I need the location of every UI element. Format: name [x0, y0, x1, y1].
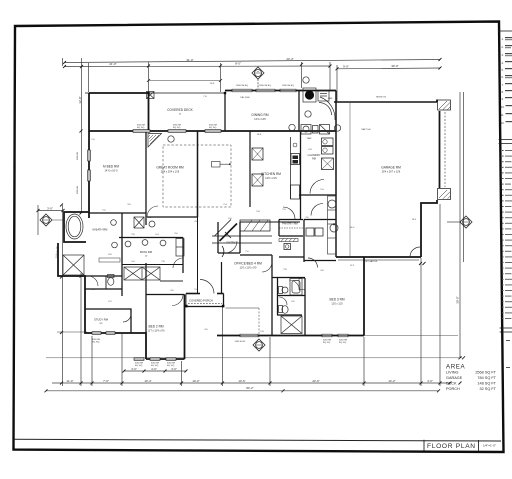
foyer east wall [221, 262, 223, 294]
interior walls [85, 91, 336, 336]
closet X box 1 [63, 255, 84, 275]
door arc powder [279, 297, 287, 305]
svg-text:STUDY RM: STUDY RM [94, 318, 109, 322]
notes column [498, 31, 512, 368]
wall: garage south [336, 256, 421, 258]
diamond tag bottom [226, 308, 266, 351]
svg-text:COVERED DECK: COVERED DECK [167, 108, 193, 112]
svg-text:84'-2": 84'-2" [246, 386, 253, 390]
leader from bed3 corner [364, 335, 458, 337]
svg-text:1/4"=1'-0": 1/4"=1'-0" [483, 444, 496, 448]
svg-text:PANTRY RM: PANTRY RM [282, 222, 298, 226]
porch strip [186, 293, 200, 295]
dimension lines [37, 57, 466, 392]
K box tag [147, 92, 155, 99]
svg-text:23'-0": 23'-0" [312, 379, 319, 383]
svg-text:PORCH: PORCH [446, 387, 460, 391]
kitchen east counter column [290, 137, 292, 199]
svg-text:11'-0": 11'-0" [66, 379, 73, 383]
wall: main north [89, 130, 336, 132]
svg-text:7'-6": 7'-6" [103, 379, 109, 383]
tray ceiling dashed [163, 145, 231, 207]
notes list rows (lower box, dense) [502, 150, 512, 319]
dryer [320, 125, 330, 135]
svg-text:EQ. EQ.: EQ. EQ. [323, 342, 331, 344]
svg-text:RAFT 2x8: RAFT 2x8 [362, 128, 372, 131]
svg-text:EQ. EQ.: EQ. EQ. [167, 365, 175, 367]
door arc study [123, 314, 131, 322]
corner fireplace [148, 134, 162, 148]
svg-text:12'0 x 11'0: 12'0 x 11'0 [331, 303, 343, 306]
svg-text:30'-0": 30'-0" [456, 296, 460, 303]
extension x337 [336, 65, 338, 101]
svg-text:10'-0": 10'-0" [192, 379, 199, 383]
toilet 2 [112, 242, 118, 248]
toilet 1 [111, 220, 117, 226]
kitchen south wall [240, 221, 300, 223]
svg-text:2.: 2. [502, 45, 504, 49]
bath toilet [125, 241, 131, 247]
bottom extensions [91, 336, 93, 386]
circle tags small [149, 77, 341, 227]
diamond tag right [460, 216, 472, 228]
kitchen west cabinets [252, 148, 263, 160]
diamond tag top [252, 67, 264, 79]
svg-text:M BED RM: M BED RM [103, 165, 119, 169]
mud door arc [311, 204, 323, 216]
closet X box 3 (hall band) [124, 267, 183, 281]
garage circle tags [328, 200, 338, 232]
bottom long leader y352 [46, 357, 462, 359]
svg-text:4'-0": 4'-0" [171, 367, 177, 371]
svg-text:EQ. EQ.: EQ. EQ. [92, 342, 100, 344]
fixtures and symbols [40, 67, 472, 351]
wall: mud south [304, 219, 336, 221]
svg-text:11'7 x 13'4 x 9'0: 11'7 x 13'4 x 9'0 [148, 330, 166, 333]
wall: south office+bed3 [217, 335, 364, 337]
left tub dim [37, 205, 39, 235]
front door arc [200, 280, 214, 294]
svg-text:FLOOR PLAN: FLOOR PLAN [427, 443, 476, 450]
title strip line [14, 439, 501, 441]
walls [58, 89, 451, 360]
top dim line right [337, 67, 440, 70]
svg-text:LAUNDRY: LAUNDRY [308, 153, 321, 157]
top extension x83 [81, 58, 83, 213]
wall: bath west [121, 213, 123, 296]
notes box borders [498, 31, 512, 332]
garage south apron line [338, 259, 419, 261]
svg-text:RIDGE LN: RIDGE LN [376, 97, 386, 99]
wall: m bath north [89, 212, 146, 214]
powder sink [284, 244, 291, 250]
wall: bed2 west upper [145, 263, 147, 333]
toilet with base hall bath [108, 275, 115, 286]
extension x330 [329, 62, 331, 90]
wall: laundry south [299, 194, 336, 196]
wall: m bed east [145, 131, 147, 225]
svg-text:GARAGE RM: GARAGE RM [381, 166, 401, 170]
svg-text:EQ. EQ.: EQ. EQ. [135, 365, 143, 367]
wall: kitchen east [300, 131, 302, 220]
entry angled walls [220, 224, 238, 242]
svg-text:EQ. EQ.: EQ. EQ. [339, 342, 347, 344]
garage interior extension [349, 103, 351, 256]
wall: garage east [436, 100, 438, 103]
wall: dining north [225, 90, 336, 92]
bed3 bath toilet [279, 287, 289, 294]
dim texts [47, 57, 459, 390]
wall: bed3 east [363, 257, 365, 336]
extension x66 [62, 58, 64, 66]
svg-text:3050 SH EQ: 3050 SH EQ [236, 85, 248, 87]
right tag leader [447, 221, 461, 223]
svg-text:3050 SH EQ: 3050 SH EQ [282, 85, 294, 87]
bed3 closet shelf [299, 279, 305, 290]
fridge [318, 91, 329, 101]
svg-text:12'4 x 13'6: 12'4 x 13'6 [254, 118, 266, 121]
extension x466 right [459, 92, 461, 358]
wall: office north [240, 254, 272, 256]
extension x258 (tag leader) [257, 79, 259, 90]
FP tag box [212, 162, 231, 168]
svg-text:4'-0": 4'-0" [131, 367, 137, 371]
wall: tub box [64, 212, 89, 242]
svg-text:8'-0": 8'-0" [235, 62, 241, 66]
svg-text:3.: 3. [502, 53, 504, 57]
svg-text:12.: 12. [501, 121, 505, 125]
garage door tick pair [419, 262, 426, 265]
porch posts [185, 305, 224, 308]
wall: office east [271, 255, 273, 336]
door arc mud [320, 97, 335, 120]
lower box sparse marks [506, 340, 510, 368]
wall: study box [85, 309, 131, 333]
bottom dim y371 short [124, 370, 186, 372]
svg-text:1.: 1. [502, 37, 504, 41]
door arc entry [225, 241, 237, 253]
island with hatch [240, 220, 270, 231]
svg-text:KITCHEN RM: KITCHEN RM [261, 172, 281, 176]
svg-text:10.: 10. [501, 105, 505, 109]
svg-text:EQ. EQ.: EQ. EQ. [173, 127, 181, 129]
mud bench boxes [306, 228, 314, 236]
svg-text:OFFICE/BED 4 RM: OFFICE/BED 4 RM [234, 262, 262, 266]
wall: bed2 east [184, 295, 186, 360]
svg-text:9'-0": 9'-0" [343, 64, 349, 68]
laundry washer dryer [322, 138, 334, 146]
svg-text:BATH RM: BATH RM [140, 250, 153, 254]
tick slashes [37, 58, 466, 392]
svg-text:EQ. EQ.: EQ. EQ. [151, 365, 159, 367]
tiny interior dims [91, 83, 417, 343]
svg-text:COVERED PORCH: COVERED PORCH [189, 299, 213, 303]
svg-text:3050 SH EQ: 3050 SH EQ [259, 85, 271, 87]
door arc bed3 [308, 258, 318, 268]
svg-text:4.: 4. [502, 61, 504, 65]
svg-text:20'4 x 20'4 x 13'6: 20'4 x 20'4 x 13'6 [161, 171, 180, 174]
foyer west wall [197, 217, 199, 294]
wall: pantry [279, 219, 303, 221]
stove [303, 88, 316, 102]
wall: bed2 south [146, 358, 185, 360]
svg-text:32 SQ FT: 32 SQ FT [480, 387, 497, 391]
svg-text:3'-0": 3'-0" [47, 207, 53, 211]
door arc great room south [147, 206, 158, 217]
deck top edge thin [85, 92, 225, 94]
svg-text:3050 SH: 3050 SH [77, 151, 79, 160]
svg-text:AREA: AREA [446, 364, 466, 371]
wall: garage north [334, 101, 437, 103]
garage cabinets [328, 196, 337, 254]
wall: hall south [304, 260, 336, 262]
laundry door arc [310, 180, 324, 194]
door arc bath [173, 258, 183, 268]
wall: bath box [119, 237, 183, 239]
bathtub [66, 214, 83, 239]
door arc bed3 bath [289, 280, 300, 291]
small cab [313, 126, 319, 134]
door arc m bath [88, 276, 98, 286]
svg-text:13'-6": 13'-6" [238, 379, 245, 383]
door arc kitchen hall [319, 103, 332, 116]
top dim line left [65, 65, 331, 68]
wall: bed2 north [146, 294, 185, 296]
wall: powder east [303, 220, 305, 263]
svg-text:12'-0": 12'-0" [78, 96, 82, 103]
svg-text:16'0 GAR DR: 16'0 GAR DR [365, 260, 378, 263]
svg-text:11.: 11. [501, 113, 505, 117]
door arc bed2 porch [172, 295, 183, 306]
svg-text:5040 SLGD: 5040 SLGD [235, 341, 246, 343]
wall: garage west [335, 91, 337, 258]
wall: great room south [147, 216, 198, 218]
bottom dim y389 [46, 390, 439, 392]
wall: kitchen top corner [298, 91, 300, 132]
wall: west jog [58, 243, 146, 359]
kitchen west wall [249, 131, 251, 207]
title block: floor plan box [424, 440, 479, 451]
svg-text:4'-0": 4'-0" [151, 367, 157, 371]
svg-text:7.: 7. [502, 83, 504, 87]
svg-text:14'-0 x 16'-0: 14'-0 x 16'-0 [104, 170, 118, 173]
svg-text:13'-4": 13'-4" [144, 379, 151, 383]
svg-text:14'-2": 14'-2" [388, 379, 395, 383]
bed3 bath tub [290, 279, 302, 296]
svg-text:LIVING: LIVING [446, 371, 458, 375]
svg-text:DINING RM: DINING RM [252, 113, 269, 117]
svg-text:21'-0": 21'-0" [109, 62, 116, 66]
wall: M BED north [89, 92, 149, 94]
svg-text:GREAT ROOM RM: GREAT ROOM RM [156, 166, 184, 170]
bottom dim y380 [52, 382, 450, 384]
svg-text:GARAGE: GARAGE [446, 376, 463, 380]
area table [446, 364, 497, 392]
wall: closet bottom [85, 275, 122, 277]
svg-text:EQ. EQ.: EQ. EQ. [137, 127, 145, 129]
wall: M BED west [88, 93, 90, 218]
pocket door hatch band [279, 239, 298, 242]
svg-text:BED 3 RM: BED 3 RM [329, 298, 344, 302]
diamond tag left [40, 214, 52, 226]
deck posts [147, 92, 226, 94]
notes list rows (upper box) [501, 37, 512, 125]
windows: main north wall [88, 89, 348, 360]
garage NE chimney [438, 100, 451, 200]
svg-text:BED 2 RM: BED 2 RM [148, 325, 163, 329]
window labels [77, 85, 386, 367]
svg-text:RM: RM [312, 158, 316, 161]
svg-text:EQ. EQ.: EQ. EQ. [209, 127, 217, 129]
washer [301, 125, 311, 135]
svg-text:148 SQ FT: 148 SQ FT [477, 382, 496, 386]
door arc garage [410, 247, 420, 257]
svg-text:4'-0": 4'-0" [427, 379, 433, 383]
svg-text:DBL 5040: DBL 5040 [240, 97, 250, 99]
svg-text:5.: 5. [502, 68, 504, 72]
svg-text:12'6 x 21'6: 12'6 x 21'6 [265, 177, 277, 180]
svg-text:6.: 6. [502, 75, 504, 79]
svg-text:M BATH RM: M BATH RM [93, 228, 109, 232]
closet X box 2 (linen) [134, 217, 144, 228]
svg-text:31'-0": 31'-0" [186, 58, 193, 62]
svg-text:11'0 x 11'6 x 9'0: 11'0 x 11'6 x 9'0 [240, 267, 257, 270]
wall: garage east bump [421, 200, 437, 257]
svg-text:8.: 8. [502, 90, 504, 94]
svg-text:30'-0": 30'-0" [391, 64, 398, 68]
bath shower cabinet [176, 239, 184, 257]
powder toilet [279, 306, 289, 314]
svg-text:784 SQ FT: 784 SQ FT [477, 376, 496, 380]
top secondary dim [149, 80, 221, 82]
extension x460 right [463, 92, 465, 262]
wall: entry south [218, 252, 240, 254]
wall: deck divider [224, 93, 226, 131]
closet X box 4 [281, 316, 302, 334]
wall: bed3 west [304, 278, 306, 336]
svg-text:23'-4": 23'-4" [286, 57, 293, 61]
counters kitchen [198, 131, 334, 294]
pantry door arc [283, 207, 295, 219]
svg-text:9.: 9. [502, 97, 504, 101]
svg-text:3050 SH: 3050 SH [77, 185, 79, 194]
powder bottom wall [279, 256, 304, 258]
door arc office [262, 262, 272, 272]
wall: entry west [217, 222, 219, 253]
svg-text:ENTRY: ENTRY [226, 241, 235, 245]
extension x147 [148, 62, 150, 93]
svg-text:2568 SQ FT: 2568 SQ FT [475, 371, 496, 375]
bath sinks [142, 240, 166, 246]
wall: bump east [148, 93, 150, 131]
bench [99, 258, 120, 262]
great room east wall [197, 131, 199, 217]
wall: entry east [239, 222, 241, 253]
svg-text:26'4 x 26'7 x 13'6: 26'4 x 26'7 x 13'6 [382, 171, 401, 174]
exterior walls thick [58, 91, 451, 360]
